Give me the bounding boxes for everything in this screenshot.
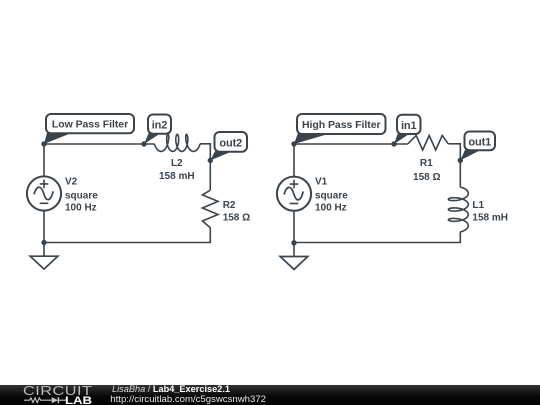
svg-text:square: square — [65, 191, 98, 202]
svg-text:Low Pass Filter: Low Pass Filter — [52, 119, 128, 131]
svg-text:R1: R1 — [420, 158, 433, 169]
svg-text:in1: in1 — [401, 120, 417, 132]
svg-text:L1: L1 — [472, 200, 484, 211]
svg-text:R2: R2 — [223, 200, 236, 211]
svg-text:100 Hz: 100 Hz — [315, 203, 347, 214]
svg-text:158 Ω: 158 Ω — [413, 172, 440, 183]
svg-text:out2: out2 — [219, 137, 242, 149]
svg-text:square: square — [315, 191, 348, 202]
svg-text:in2: in2 — [152, 120, 168, 132]
svg-text:158 Ω: 158 Ω — [223, 213, 250, 224]
svg-text:V1: V1 — [315, 176, 328, 187]
svg-text:L2: L2 — [171, 158, 183, 169]
svg-text:158 mH: 158 mH — [472, 213, 508, 224]
svg-text:out1: out1 — [468, 136, 491, 148]
svg-text:V2: V2 — [65, 176, 78, 187]
svg-text:158 mH: 158 mH — [159, 171, 195, 182]
svg-text:High Pass Filter: High Pass Filter — [302, 119, 381, 131]
svg-text:100 Hz: 100 Hz — [65, 203, 97, 214]
